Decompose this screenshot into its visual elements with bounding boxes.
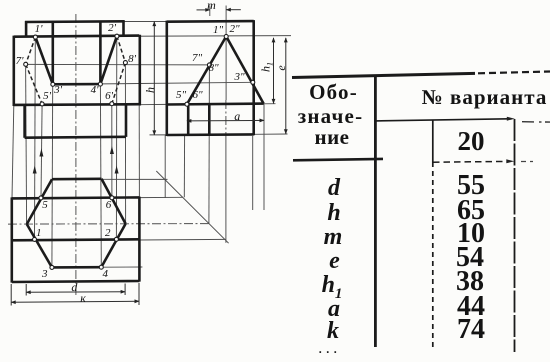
TV band top edge xyxy=(12,197,140,198)
value 55 xyxy=(396,172,546,200)
label 8' xyxy=(72,54,192,65)
wire profile axis upper solid part xyxy=(225,6,227,101)
node 5' xyxy=(40,102,44,106)
wire top view band top level to diagonal xyxy=(139,196,183,198)
node 3' xyxy=(51,82,55,86)
row label d xyxy=(259,176,409,200)
row label h1 xyxy=(257,273,407,302)
variant cell right vertical xyxy=(514,119,516,352)
PV inner vertical x=188 xyxy=(187,104,190,135)
PV top edge xyxy=(167,20,254,23)
wire vertical below PV x=184.6 xyxy=(183,135,185,197)
label 1' xyxy=(0,24,99,35)
arrow up on line x=42 xyxy=(39,149,43,157)
wire top view band mid level to diagonal xyxy=(139,238,225,241)
wire vertical from 4' to 4 xyxy=(99,84,102,267)
wire vertical below PV left edge xyxy=(164,136,166,199)
FV band right edge xyxy=(139,35,142,106)
FV notch bottom 3'-4' xyxy=(53,83,101,86)
label k dim xyxy=(23,292,143,304)
variant cell left vertical (solid part) xyxy=(432,120,434,162)
wire vertical from 5' to 5 xyxy=(41,104,42,198)
label 7'' xyxy=(137,53,257,64)
node 6 xyxy=(110,196,114,200)
wire e bottom extension xyxy=(254,133,288,135)
dimension m left segment xyxy=(197,9,210,11)
wire top view hexagon top level to right xyxy=(102,178,168,180)
TV band left edge xyxy=(11,197,14,282)
hexagon bottom edge xyxy=(52,266,101,269)
FV lower rect bottom xyxy=(25,136,126,139)
node 1' xyxy=(33,35,37,39)
centerline profile view vertical (lower dash-dot part) xyxy=(225,100,227,136)
wire vertical x=125.4 xyxy=(124,63,126,224)
value 74 xyxy=(396,316,546,344)
hexagon upper-left edge xyxy=(27,179,52,224)
FV notch diagonal 1'-3' xyxy=(35,37,52,84)
ellipsis under left column xyxy=(255,343,405,355)
FV top edge xyxy=(25,20,125,23)
label a xyxy=(177,110,297,122)
dimension k line xyxy=(11,301,139,302)
table header bottom line left column xyxy=(293,159,383,160)
FV lower rect left xyxy=(23,105,26,138)
node 7' xyxy=(24,62,28,66)
dashed 2'-8' xyxy=(117,36,126,63)
TV band right edge xyxy=(138,197,141,282)
dimension h line xyxy=(153,22,155,135)
dimension h1 line xyxy=(273,38,275,104)
FV band top edge xyxy=(14,36,139,37)
d extension right xyxy=(124,284,126,296)
row label a xyxy=(259,297,409,321)
value 10 xyxy=(396,220,546,248)
arrow right on varianta line xyxy=(507,117,515,121)
wire top view 3-4 level short extension xyxy=(101,266,142,268)
wire gap 5'6' level xyxy=(139,103,167,105)
arrow up on line x=112 xyxy=(110,146,114,154)
PV ledge at 5''6'' level xyxy=(167,102,264,106)
wire profile axis lower solid part xyxy=(225,136,227,243)
label 2 xyxy=(48,228,168,239)
wire vertical from 2' to 2 xyxy=(115,36,117,239)
label 8'' xyxy=(154,63,274,74)
centerline top view horizontal xyxy=(8,223,209,226)
row label k xyxy=(258,319,408,343)
row label m xyxy=(258,225,408,249)
label h1 xyxy=(260,62,275,72)
45 degree mirror diagonal xyxy=(156,171,228,243)
FV notch diagonal 2'-4' xyxy=(100,36,117,84)
label 3' xyxy=(0,85,118,96)
wire level 1'-2'' apex xyxy=(35,36,291,37)
wire vertical from 1' to 1 xyxy=(34,37,37,240)
FV inner vertical left (to 3') xyxy=(51,22,54,85)
table top border dashed continuation xyxy=(478,72,550,74)
node 3'' xyxy=(251,80,255,84)
wire h bottom extension xyxy=(150,134,167,136)
TV band middle edge (through 1,2) xyxy=(12,239,140,240)
FV inner vertical right (to 4') xyxy=(99,22,102,85)
wire vertical from 6' to 6 xyxy=(111,104,113,198)
wire vertical below PV right edge xyxy=(252,136,254,210)
PV right edge xyxy=(252,20,255,135)
label 3 xyxy=(0,269,105,280)
node 2' xyxy=(115,34,119,38)
wire h1 bottom extension xyxy=(263,103,275,105)
table header right: № варианта xyxy=(410,87,550,108)
wire vertical x=25.6 xyxy=(26,64,27,224)
hexagon upper-right edge xyxy=(102,179,126,224)
node 3 xyxy=(50,265,54,269)
label 1 xyxy=(0,228,99,239)
variant cell left vertical dashed part xyxy=(432,162,434,350)
row label e xyxy=(260,249,410,273)
dashed 1'-7' xyxy=(26,37,36,64)
dashed 8'-6' xyxy=(112,63,126,104)
label 4' xyxy=(35,85,155,96)
wire vertical band edge right xyxy=(138,105,140,198)
value 65 xyxy=(396,197,546,225)
FV lower rect right xyxy=(125,104,128,137)
label 3'' xyxy=(180,72,300,83)
node 4' xyxy=(98,82,102,86)
label d dim xyxy=(14,281,134,293)
dashed 7'-5' xyxy=(26,64,42,104)
table header left: Обозначение xyxy=(259,82,409,103)
FV top-left vertical xyxy=(25,21,28,38)
dimension d line xyxy=(26,291,125,294)
value 44 xyxy=(396,293,546,321)
node 8' xyxy=(123,61,127,65)
node 5''6'' xyxy=(185,102,189,106)
node 1''2'' xyxy=(224,35,228,39)
FV band bottom edge xyxy=(14,103,139,106)
hexagon top edge xyxy=(52,178,102,181)
wire level 7'-8'' xyxy=(26,63,210,66)
TV band bottom edge xyxy=(12,281,140,282)
wire vertical x=209.3 below PV to centerline xyxy=(208,135,210,224)
FV band left edge xyxy=(13,36,16,106)
PV left edge xyxy=(166,21,169,136)
wire h top extension xyxy=(124,21,167,23)
wire vertical x=209.3 inside triangle xyxy=(208,65,210,104)
table no-varianta underline xyxy=(375,119,511,121)
arrow up on line x=116.6 xyxy=(115,166,119,174)
wire vertical band edge left xyxy=(12,105,14,198)
label m xyxy=(152,0,272,11)
faint dashes right of 20-line xyxy=(521,161,533,163)
PV inner vertical x=209 xyxy=(208,104,211,135)
label 1'' xyxy=(158,25,278,36)
node 2 xyxy=(114,237,118,241)
value 38 xyxy=(395,268,545,296)
label 5 xyxy=(0,200,105,211)
d extension left xyxy=(25,284,27,296)
arrow right under 20 xyxy=(506,159,514,163)
label 4 xyxy=(45,269,165,280)
table top border solid xyxy=(292,73,475,77)
wire vertical a right extension xyxy=(263,104,265,210)
wire m left extension xyxy=(209,6,211,17)
FV top-right vertical xyxy=(122,21,125,37)
label e xyxy=(275,66,287,71)
label 5'' xyxy=(121,90,241,101)
dimension a line xyxy=(187,119,264,122)
table header divider vertical xyxy=(374,75,377,347)
k extension right xyxy=(138,283,140,305)
PV triangle right slope xyxy=(226,36,263,103)
label 5' xyxy=(0,91,107,102)
dimension m right segment xyxy=(226,9,241,11)
PV bottom edge xyxy=(167,133,254,136)
wire level 3'-3'' xyxy=(53,82,253,84)
node 7''8'' xyxy=(207,63,211,67)
k extension left xyxy=(10,284,12,306)
node 4 xyxy=(99,265,103,269)
PV triangle left slope xyxy=(187,36,226,104)
node 6' xyxy=(110,102,114,106)
label 7' xyxy=(0,56,80,67)
dash-dot continuation right of varianta line xyxy=(522,121,550,123)
arrow up on line x=35 xyxy=(33,166,37,174)
variant number 20 xyxy=(396,128,546,155)
dashed line under 20 xyxy=(433,160,509,163)
hexagon lower-left edge xyxy=(27,224,52,267)
node 5 xyxy=(39,196,43,200)
label h xyxy=(144,87,156,93)
centerline front+top view vertical xyxy=(75,14,77,296)
label 6'' xyxy=(138,90,258,101)
value 54 xyxy=(395,244,545,272)
row label h xyxy=(259,201,409,225)
hexagon lower-right edge xyxy=(101,224,125,268)
dimension e line xyxy=(285,38,287,134)
label 2'' xyxy=(175,24,295,35)
label 6 xyxy=(49,200,169,211)
node 1 xyxy=(33,237,37,241)
label 6' xyxy=(49,91,169,102)
wire vertical from 3' to 3 xyxy=(51,84,54,267)
label 2' xyxy=(52,23,172,34)
